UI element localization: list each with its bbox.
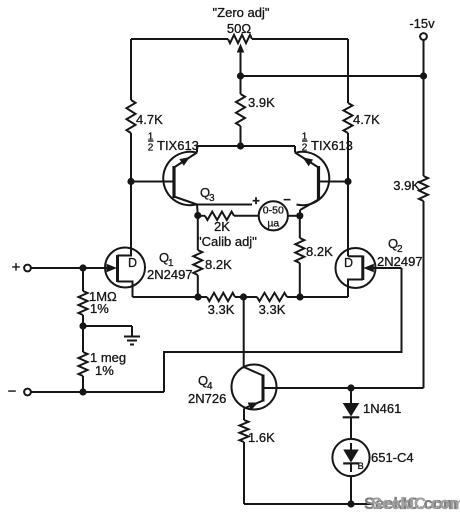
wire plus input xyxy=(31,267,107,269)
transistor Q3 right base bar xyxy=(317,166,320,200)
resistor 8.2K left xyxy=(193,216,202,298)
resistor 3.9K right xyxy=(419,176,428,201)
svg-text:1N461: 1N461 xyxy=(363,401,401,416)
transistor Q4 base bar xyxy=(262,375,265,402)
resistor 4.7K right xyxy=(344,103,353,133)
wire right column to Q2 xyxy=(347,182,349,257)
label half TIX613 left xyxy=(148,132,199,154)
label Q1 2N2497 xyxy=(147,267,193,282)
wire to ground xyxy=(83,325,132,327)
svg-text:"Zero adj": "Zero adj" xyxy=(213,5,270,20)
label meter minus xyxy=(283,192,291,207)
transistor Q4 emitter lead xyxy=(244,401,263,411)
node right collector junction xyxy=(296,212,303,219)
svg-text:3.9K: 3.9K xyxy=(393,178,420,193)
label 8.2K left xyxy=(205,257,232,272)
reference diode 651-C4 xyxy=(332,439,369,476)
transistor Q2 source lead xyxy=(348,280,363,298)
wire pair rail right corner xyxy=(294,146,296,153)
resistor 2K calib adj xyxy=(198,212,259,220)
wire diode bottom xyxy=(350,476,352,504)
node ground junction xyxy=(79,322,86,329)
resistor R-pot 50 ohm Zero adj xyxy=(228,35,252,43)
node left collector junction xyxy=(194,212,201,219)
node pair rail junction xyxy=(237,142,244,149)
wire left column upper xyxy=(130,39,132,100)
wire right column mid xyxy=(347,133,349,182)
svg-text:+: + xyxy=(12,259,21,276)
svg-text:1.6K: 1.6K xyxy=(248,430,275,445)
svg-text:2N726: 2N726 xyxy=(188,391,226,406)
label Q1 D xyxy=(128,256,137,270)
label 8.2K right xyxy=(306,244,333,259)
label 2K xyxy=(214,219,230,234)
transistor Q1 source lead xyxy=(118,282,133,298)
transistor Q2 outline xyxy=(336,248,376,288)
svg-text:8.2K: 8.2K xyxy=(205,257,232,272)
label 1M ohm xyxy=(89,289,117,316)
label Q2 xyxy=(388,236,403,255)
transistor Q3 right emitter xyxy=(295,153,319,168)
wire Q3 left collector down xyxy=(196,205,199,216)
wire pair emitter rail xyxy=(197,145,295,147)
watermark SeekIC xyxy=(364,495,460,513)
label Calib adj xyxy=(197,234,257,249)
transistor Q2 drain lead xyxy=(348,255,363,257)
transistor Q1 channel bar xyxy=(116,255,119,282)
transistor Q3 left emitter xyxy=(174,153,197,168)
resistor 1.6K xyxy=(240,409,249,505)
wire Q3 right base lead xyxy=(319,181,349,183)
label 3.9K center xyxy=(248,95,275,110)
wire -15v down xyxy=(423,40,425,76)
svg-text:8.2K: 8.2K xyxy=(306,244,333,259)
wire meter to right node xyxy=(288,215,300,217)
wire right column upper xyxy=(347,39,349,103)
label Q2 2N2497 xyxy=(377,254,423,269)
svg-text:+: + xyxy=(252,193,260,208)
transistor Q3 right half outline xyxy=(297,152,330,205)
svg-text:D: D xyxy=(128,256,137,270)
power terminal -15v xyxy=(409,16,435,40)
svg-text:µa: µa xyxy=(267,218,279,230)
svg-text:−: − xyxy=(8,383,17,400)
wire wiper to -15v rail xyxy=(241,75,424,77)
svg-text:3: 3 xyxy=(209,193,215,204)
svg-text:2: 2 xyxy=(302,143,308,154)
label Zero adj xyxy=(213,5,270,20)
node wiper junction xyxy=(237,72,244,79)
wire pair rail left corner xyxy=(196,146,198,153)
svg-text:3.3K: 3.3K xyxy=(259,302,286,317)
label Q4 2N726 xyxy=(188,391,226,406)
svg-text:B: B xyxy=(358,461,364,472)
transistor Q3 left half outline xyxy=(163,152,196,205)
wire top rail left segment xyxy=(131,38,228,40)
svg-text:4.7K: 4.7K xyxy=(353,112,380,127)
label Q1 xyxy=(159,250,174,269)
svg-text:2K: 2K xyxy=(214,219,230,234)
svg-text:4.7K: 4.7K xyxy=(136,112,163,127)
input terminal plus xyxy=(12,259,31,276)
node rail dot B xyxy=(240,293,247,300)
transistor Q1 outline xyxy=(105,248,145,288)
wire meter plus stub xyxy=(197,204,252,206)
label 3.3K right xyxy=(259,302,286,317)
node plus junction xyxy=(79,264,86,271)
label 3.9K right xyxy=(393,178,420,193)
node bottom junction xyxy=(347,500,354,507)
transistor Q2 gate arrow xyxy=(363,264,374,272)
label 1.6K xyxy=(248,430,275,445)
resistor 3.9K center xyxy=(236,94,245,126)
wire -15v column to 3.9K xyxy=(423,76,425,176)
label Q4 xyxy=(198,373,213,392)
wire diode mid xyxy=(350,417,352,439)
svg-text:3.9K: 3.9K xyxy=(248,95,275,110)
node rail dot A xyxy=(194,293,201,300)
wire bottom rail xyxy=(244,503,372,505)
wire diode top xyxy=(350,388,352,403)
svg-text:3.3K: 3.3K xyxy=(208,302,235,317)
svg-text:SeekIC.com: SeekIC.com xyxy=(371,495,460,513)
wire Q4 collector xyxy=(243,297,245,367)
transistor Q4 outline xyxy=(232,365,277,410)
wire pot wiper xyxy=(237,44,245,95)
diode 1N461 xyxy=(343,403,360,417)
node Q4 base junction xyxy=(347,384,354,391)
transistor Q1 gate arrow xyxy=(107,264,118,272)
wire top rail right segment xyxy=(252,38,348,40)
transistor Q3 left base bar xyxy=(172,166,175,198)
svg-text:2N2497: 2N2497 xyxy=(377,254,423,269)
resistor 3.3K left xyxy=(207,293,235,301)
svg-text:D: D xyxy=(344,256,353,270)
transistor Q4 collector lead xyxy=(244,367,263,376)
wire 3.9K to pair rail xyxy=(240,126,242,146)
resistor 8.2K right xyxy=(295,216,304,297)
resistor 1meg xyxy=(79,326,88,392)
label 3.3K left xyxy=(208,302,235,317)
node -15v junction xyxy=(420,72,427,79)
svg-text:50Ω: 50Ω xyxy=(227,21,251,36)
label Q3 xyxy=(200,185,215,204)
wire 3.9K right down xyxy=(423,201,425,388)
transistor Q2 channel bar xyxy=(361,256,364,281)
wire Q2 gate lead xyxy=(373,267,402,269)
node minus junction xyxy=(79,388,86,395)
node left column junction xyxy=(127,178,134,185)
svg-text:2N2497: 2N2497 xyxy=(147,267,193,282)
wire lower rail right xyxy=(287,296,348,298)
label meter plus xyxy=(252,193,260,208)
transistor Q1 drain lead xyxy=(118,249,132,256)
label 1meg xyxy=(90,350,126,378)
resistor 4.7K left xyxy=(127,100,136,133)
meter M1 0-50ua xyxy=(259,201,288,230)
svg-text:−: − xyxy=(283,192,291,207)
svg-text:TIX613: TIX613 xyxy=(311,138,353,153)
wire minus input xyxy=(31,391,164,393)
svg-text:651-C4: 651-C4 xyxy=(371,450,414,465)
svg-text:TIX613: TIX613 xyxy=(157,138,199,153)
node rail dot C xyxy=(296,293,303,300)
wire Q3 left base lead xyxy=(131,181,174,183)
svg-text:-15v: -15v xyxy=(409,16,435,31)
resistor 3.3K right xyxy=(257,293,287,301)
svg-text:0-50: 0-50 xyxy=(263,205,284,217)
wire feedback xyxy=(164,268,402,392)
ground symbol xyxy=(124,326,140,345)
label 50 ohm xyxy=(227,21,251,36)
svg-text:2: 2 xyxy=(148,143,154,154)
svg-text:"Calib adj": "Calib adj" xyxy=(197,234,257,249)
resistor 1M left xyxy=(79,268,88,326)
transistor Q3 left collector xyxy=(174,197,197,205)
svg-text:1%: 1% xyxy=(90,301,109,316)
svg-text:1%: 1% xyxy=(95,363,114,378)
wire lower rail left xyxy=(133,296,208,298)
label 651-C4 xyxy=(371,450,414,465)
wire lower rail mid xyxy=(235,296,257,298)
label 4.7K left xyxy=(136,112,163,127)
wire left column lower xyxy=(130,133,132,249)
label Q2 D xyxy=(344,256,353,270)
label 1N461 xyxy=(363,401,401,416)
input terminal minus xyxy=(8,383,31,400)
label 4.7K right xyxy=(353,112,380,127)
node right column junction xyxy=(344,178,351,185)
transistor Q3 right collector xyxy=(300,200,319,216)
label half TIX613 right xyxy=(302,132,353,154)
wire Q4 base rail xyxy=(263,387,424,389)
